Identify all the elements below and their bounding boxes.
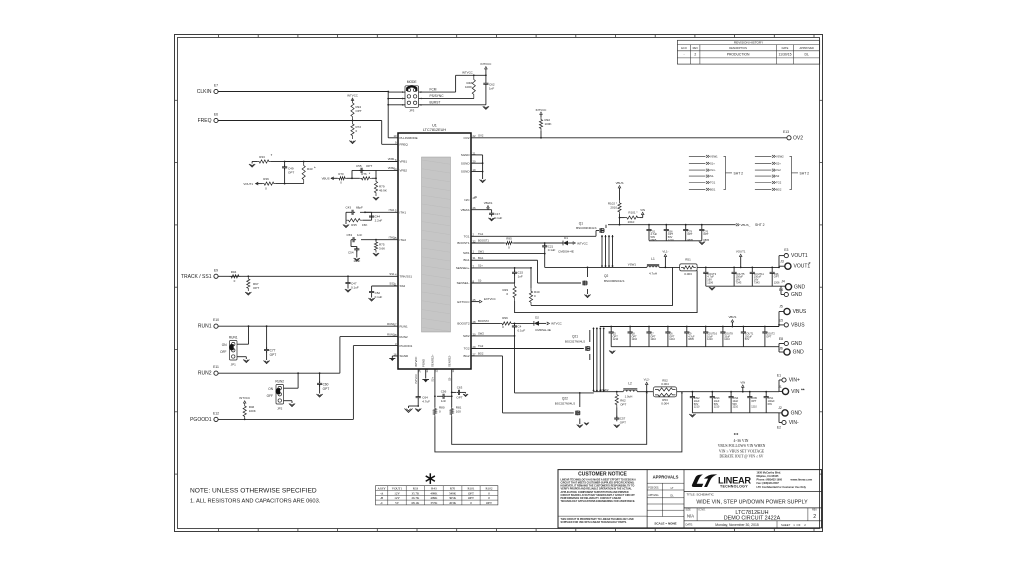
svg-text:D1: D1 (564, 236, 568, 240)
svg-text:2010: 2010 (628, 220, 635, 224)
svg-text:12V: 12V (394, 491, 400, 495)
svg-text:0.1uF: 0.1uF (518, 328, 526, 332)
svg-text:R33: R33 (413, 487, 419, 491)
svg-text:S1-: S1- (478, 279, 482, 283)
svg-text:OPT: OPT (703, 232, 709, 236)
svg-text:CLKIN: CLKIN (197, 89, 212, 95)
svg-text:R76: R76 (361, 172, 367, 176)
svg-text:INTVCC: INTVCC (414, 374, 418, 384)
svg-text:0805: 0805 (703, 238, 709, 242)
svg-text:C77: C77 (270, 349, 276, 353)
svg-text:OV2: OV2 (793, 135, 803, 141)
svg-text:BG2: BG2 (776, 188, 782, 192)
svg-text:J4: J4 (781, 280, 785, 284)
svg-text:12V: 12V (394, 496, 400, 500)
svg-text:DL: DL (670, 493, 674, 497)
svg-text:SHEET: SHEET (781, 523, 791, 527)
svg-text:GND: GND (791, 410, 803, 416)
svg-text:N/A: N/A (687, 514, 694, 519)
svg-text:0.1uF: 0.1uF (495, 216, 503, 220)
svg-text:31: 31 (473, 256, 476, 260)
svg-text:INTVCC: INTVCC (347, 94, 358, 98)
svg-text:EXTVCC: EXTVCC (484, 297, 496, 301)
svg-text:S2+: S2+ (431, 377, 435, 382)
svg-text:1210: 1210 (668, 238, 674, 242)
svg-text:2: 2 (694, 53, 696, 57)
svg-text:499K: 499K (430, 496, 438, 500)
svg-text:DATE: DATE (782, 46, 789, 50)
svg-text:OPT: OPT (253, 286, 259, 290)
svg-text:TRACK / SS1: TRACK / SS1 (181, 274, 212, 280)
svg-text:BOOST1: BOOST1 (457, 241, 470, 245)
svg-text:1210: 1210 (669, 338, 675, 341)
svg-text:5V: 5V (395, 501, 400, 505)
svg-text:VL2: VL2 (776, 168, 781, 172)
svg-text:OPT: OPT (366, 164, 372, 168)
svg-text:-B: -B (380, 496, 383, 500)
svg-text:FCM: FCM (430, 88, 437, 92)
svg-text:0.1uF: 0.1uF (548, 248, 556, 252)
svg-text:1nF: 1nF (357, 233, 362, 237)
svg-text:VIN ≥ VBUS SET VOLTAGE: VIN ≥ VBUS SET VOLTAGE (719, 449, 765, 453)
svg-text:S1+: S1+ (478, 264, 483, 268)
svg-text:OPT: OPT (620, 421, 626, 425)
svg-text:TG1: TG1 (464, 235, 470, 239)
svg-text:INTVCC: INTVCC (551, 322, 562, 326)
svg-text:100K: 100K (249, 409, 256, 413)
svg-text:REV.: REV. (812, 510, 818, 512)
svg-text:E12: E12 (213, 411, 219, 415)
svg-text:1210: 1210 (733, 406, 739, 409)
svg-text:-C: -C (380, 501, 383, 505)
svg-text:100: 100 (456, 409, 461, 413)
svg-text:OPT: OPT (323, 387, 330, 391)
svg-text:E8: E8 (779, 337, 783, 341)
svg-text:S1-: S1- (710, 174, 714, 178)
svg-text:49.9K: 49.9K (379, 189, 387, 193)
svg-text:357K: 357K (430, 501, 438, 505)
svg-text:2: 2 (813, 514, 816, 520)
svg-text:RUN2: RUN2 (400, 335, 408, 339)
svg-text:1210: 1210 (694, 406, 700, 409)
svg-text:OPT: OPT (486, 501, 492, 505)
svg-text:U1: U1 (432, 124, 437, 128)
svg-text:BOOST1: BOOST1 (478, 239, 489, 243)
svg-text:JP1: JP1 (231, 363, 237, 367)
svg-text:GND: GND (791, 292, 803, 298)
svg-text:OPT: OPT (751, 400, 757, 403)
svg-text:2010: 2010 (610, 206, 617, 210)
svg-text:1nF: 1nF (441, 399, 446, 403)
svg-text:J3: J3 (780, 260, 784, 264)
svg-text:BSC027N04LS: BSC027N04LS (565, 340, 585, 344)
svg-text:R43: R43 (431, 487, 437, 491)
svg-text:APPROVED: APPROVED (799, 46, 814, 50)
svg-text:DESCRIPTION: DESCRIPTION (729, 46, 747, 50)
svg-text:EXTVCC: EXTVCC (457, 300, 470, 304)
svg-text:SS2: SS2 (400, 284, 406, 288)
svg-text:PRODUCTION: PRODUCTION (727, 53, 750, 57)
svg-text:SS2: SS2 (389, 282, 395, 286)
svg-text:MODE: MODE (407, 80, 418, 84)
svg-text:SHT 2: SHT 2 (734, 171, 744, 175)
svg-text:365K: 365K (449, 496, 457, 500)
svg-text:LTC7812EUH: LTC7812EUH (423, 128, 447, 132)
svg-text:VBUS: VBUS (793, 309, 807, 315)
svg-text:R70: R70 (338, 172, 344, 176)
svg-text:GND: GND (793, 350, 805, 356)
svg-text:R95: R95 (506, 237, 512, 241)
svg-text:Q21: Q21 (572, 335, 578, 339)
svg-text:E10: E10 (213, 318, 219, 322)
svg-text:www.linear.com: www.linear.com (790, 477, 813, 481)
svg-text:26.7K: 26.7K (411, 496, 420, 500)
svg-text:SENSE1+: SENSE1+ (456, 266, 470, 270)
svg-text:J1: J1 (778, 385, 782, 389)
svg-text:Q2: Q2 (604, 274, 608, 278)
svg-text:TECHNOLOGY: TECHNOLOGY (720, 485, 748, 489)
svg-text:BSC093N04LS: BSC093N04LS (576, 226, 596, 230)
svg-text:OPT: OPT (270, 353, 277, 357)
svg-text:BSC090N04LS: BSC090N04LS (604, 279, 624, 283)
svg-text:VSW1: VSW1 (710, 155, 718, 159)
svg-text:VSW2: VSW2 (776, 155, 784, 159)
svg-text:E5: E5 (779, 318, 783, 322)
svg-text:1210: 1210 (707, 338, 713, 341)
svg-text:BOOST2: BOOST2 (478, 319, 489, 323)
svg-text:100K: 100K (545, 122, 552, 126)
svg-text:CUSTOMER NOTICE: CUSTOMER NOTICE (578, 471, 627, 477)
svg-text:ASSY: ASSY (378, 487, 387, 491)
svg-text:OFF: OFF (220, 350, 226, 354)
svg-text:DATE:: DATE: (686, 523, 694, 527)
svg-text:OV2: OV2 (463, 136, 469, 140)
svg-text:SW2: SW2 (478, 332, 484, 336)
svg-text:INTVCC: INTVCC (481, 62, 492, 66)
svg-text:VFB1: VFB1 (388, 157, 395, 161)
svg-text:VL1-: VL1- (662, 250, 668, 254)
svg-text:1206: 1206 (707, 281, 713, 285)
svg-text:VIN: VIN (740, 380, 745, 384)
svg-text:OV2: OV2 (478, 134, 484, 138)
svg-text:VOUT1: VOUT1 (736, 250, 746, 254)
svg-text:RUN2: RUN2 (387, 332, 395, 336)
svg-text:DL: DL (805, 53, 809, 57)
svg-text:C63: C63 (457, 386, 463, 390)
svg-text:SIZE: SIZE (686, 510, 692, 512)
svg-text:BG2: BG2 (463, 354, 469, 358)
svg-text:E11: E11 (213, 365, 219, 369)
svg-text:RUN1: RUN1 (198, 324, 212, 330)
svg-text:35.7K: 35.7K (411, 491, 420, 495)
svg-text:SGND: SGND (461, 153, 471, 157)
svg-text:VBIAS: VBIAS (484, 201, 493, 205)
svg-text:15K: 15K (362, 223, 367, 227)
svg-text:SUPPLIED FOR USE WITH LINEAR T: SUPPLIED FOR USE WITH LINEAR TECHNOLOGY … (561, 521, 628, 524)
svg-text:TRK/SS1: TRK/SS1 (400, 275, 413, 279)
svg-text:PGND: PGND (422, 359, 426, 367)
svg-text:SW1: SW1 (463, 251, 470, 255)
svg-text:DERATE IOUT @ VIN ≤ 6V: DERATE IOUT @ VIN ≤ 6V (720, 455, 764, 459)
svg-text:J5: J5 (779, 305, 783, 309)
svg-text:PGOOD1: PGOOD1 (190, 417, 212, 423)
svg-text:DEMO CIRCUIT 2422A: DEMO CIRCUIT 2422A (724, 516, 781, 522)
svg-text:E1: E1 (777, 373, 781, 377)
svg-text:LTC Confidential-For Customer: LTC Confidential-For Customer Use Only (757, 485, 807, 489)
svg-text:RUN1: RUN1 (400, 324, 408, 328)
svg-text:VBIAS: VBIAS (461, 208, 470, 212)
svg-text:SW1: SW1 (478, 249, 484, 253)
svg-text:RUN2: RUN2 (275, 380, 284, 384)
svg-text:VOUT1: VOUT1 (243, 182, 253, 186)
svg-text:ON: ON (268, 387, 273, 391)
svg-text:BG1: BG1 (710, 188, 716, 192)
svg-text:SENSE2+: SENSE2+ (431, 354, 435, 367)
svg-text:OPT: OPT (456, 396, 462, 400)
svg-text:C43: C43 (345, 206, 351, 210)
svg-text:OPT: OPT (620, 402, 626, 406)
svg-text:1210: 1210 (724, 338, 730, 341)
svg-text:E2: E2 (777, 425, 781, 429)
svg-text:0805: 0805 (688, 338, 694, 341)
svg-text:S1+: S1+ (710, 162, 715, 166)
svg-text:INTVCC: INTVCC (577, 241, 588, 245)
svg-text:IC NO.: IC NO. (699, 510, 706, 512)
svg-text:S2-: S2- (448, 377, 452, 381)
svg-text:CMDSH-4E: CMDSH-4E (558, 250, 574, 254)
svg-text:OPT: OPT (288, 170, 294, 174)
svg-text:D2: D2 (535, 315, 539, 319)
svg-text:FREQ: FREQ (400, 143, 409, 147)
svg-text:0.004: 0.004 (661, 402, 669, 406)
svg-text:C54: C54 (348, 251, 354, 255)
svg-text:ITH2: ITH2 (389, 235, 395, 239)
svg-text:ECO: ECO (681, 46, 687, 50)
svg-text:INTVCC: INTVCC (239, 396, 250, 400)
svg-text:VBUS: VBUS (322, 177, 330, 181)
svg-text:PCB DES.: PCB DES. (648, 488, 659, 490)
svg-text:PGOOD1: PGOOD1 (400, 344, 413, 348)
svg-text:50V: 50V (745, 338, 750, 341)
svg-text:C55: C55 (356, 164, 362, 168)
svg-text:Fax: (408)434-0507: Fax: (408)434-0507 (757, 482, 780, 485)
svg-text:REVISION HISTORY: REVISION HISTORY (734, 41, 763, 45)
svg-text:REV: REV (693, 46, 699, 50)
svg-text:JP3: JP3 (409, 109, 415, 113)
svg-text:68pF: 68pF (356, 206, 363, 210)
svg-text:1210: 1210 (751, 406, 757, 409)
svg-text:0.1uF: 0.1uF (375, 295, 383, 299)
svg-text:J9: J9 (474, 195, 477, 199)
svg-text:Q22: Q22 (562, 396, 568, 400)
svg-text:VOUT1: VOUT1 (791, 253, 808, 259)
svg-text:GND: GND (794, 284, 806, 290)
svg-text:SENSE2-: SENSE2- (448, 355, 452, 367)
svg-text:SGND: SGND (400, 354, 410, 358)
svg-text:E6: E6 (214, 113, 218, 117)
svg-text:1nF: 1nF (489, 87, 494, 91)
svg-text:7343: 7343 (736, 281, 742, 285)
svg-text:SENSE1-: SENSE1- (457, 281, 470, 285)
svg-text:1210: 1210 (714, 406, 720, 409)
svg-text:499K: 499K (430, 491, 438, 495)
svg-text:BG1: BG1 (463, 258, 469, 262)
svg-text:C56: C56 (441, 389, 447, 393)
svg-text:R70: R70 (450, 487, 456, 491)
svg-text:TG2: TG2 (478, 344, 484, 348)
svg-text:TG1: TG1 (478, 232, 484, 236)
svg-text:SS1: SS1 (389, 272, 395, 276)
svg-text:11/30/15: 11/30/15 (779, 53, 792, 57)
svg-text:RUN1: RUN1 (387, 322, 395, 326)
svg-text:PLLIN/MODE: PLLIN/MODE (400, 136, 418, 140)
svg-text:ITH1: ITH1 (389, 208, 395, 212)
svg-text:NOTE: UNLESS OTHERWISE SPECIFI: NOTE: UNLESS OTHERWISE SPECIFIED (190, 488, 317, 495)
svg-text:TG1: TG1 (710, 181, 716, 185)
svg-text:OPT: OPT (766, 335, 772, 338)
svg-text:OPT: OPT (468, 491, 474, 495)
svg-text:1210: 1210 (650, 338, 656, 341)
svg-text:TG2: TG2 (776, 181, 782, 185)
svg-text:SHT 2: SHT 2 (755, 223, 765, 227)
svg-text:VSW1: VSW1 (628, 263, 637, 267)
svg-text:RUN2: RUN2 (198, 371, 212, 377)
svg-text:VBUS FOLLOWS VIN WHEN: VBUS FOLLOWS VIN WHEN (718, 444, 766, 448)
svg-text:S2+: S2+ (776, 162, 781, 166)
svg-text:L2: L2 (628, 382, 632, 386)
svg-text:VBUS: VBUS (728, 315, 736, 319)
svg-text:RUN1: RUN1 (229, 336, 238, 340)
svg-text:VIN: VIN (640, 208, 645, 212)
svg-text:OPT: OPT (687, 232, 693, 236)
svg-text:549K: 549K (449, 491, 457, 495)
svg-text:VL1-: VL1- (710, 168, 716, 172)
svg-text:APP ENG.: APP ENG. (648, 494, 659, 497)
svg-text:OPT: OPT (468, 496, 474, 500)
svg-text:E7: E7 (214, 84, 218, 88)
svg-text:Q1: Q1 (579, 221, 583, 225)
svg-text:63V: 63V (768, 403, 773, 406)
svg-text:1. ALL RESISTORS AND CAPACITO: 1. ALL RESISTORS AND CAPACITORS ARE 0603… (190, 499, 321, 505)
svg-text:R101 *: R101 * (628, 211, 638, 215)
svg-text:SHT 2: SHT 2 (800, 171, 810, 175)
svg-text:R35: R35 (351, 223, 357, 227)
svg-text:R51: R51 (685, 257, 691, 261)
svg-text:3.6K: 3.6K (379, 247, 385, 251)
svg-text:100K: 100K (465, 85, 472, 89)
svg-text:LT: LT (671, 486, 674, 490)
svg-text:INTVCC: INTVCC (462, 71, 473, 75)
svg-text:SGND: SGND (461, 161, 471, 165)
svg-text:VBUS: VBUS (791, 322, 805, 328)
svg-text:VL2-: VL2- (644, 378, 650, 382)
svg-text:VFB1: VFB1 (400, 160, 408, 164)
svg-text:TG2: TG2 (464, 347, 470, 351)
svg-text:GND: GND (791, 341, 803, 347)
svg-text:**: ** (801, 387, 805, 392)
svg-text:C60: C60 (323, 382, 329, 386)
svg-text:E4: E4 (779, 288, 783, 292)
svg-text:OPT: OPT (356, 109, 362, 113)
svg-text:L1: L1 (651, 257, 655, 261)
svg-text:E9: E9 (214, 268, 218, 272)
svg-text:1210: 1210 (632, 338, 638, 341)
svg-text:0.003: 0.003 (684, 272, 692, 276)
svg-text:FREQ: FREQ (198, 118, 212, 124)
svg-text:VBUS_: VBUS_ (741, 223, 751, 227)
svg-text:APPROVALS: APPROVALS (653, 475, 679, 480)
svg-text:4.7uH: 4.7uH (649, 272, 657, 276)
svg-text:SGND: SGND (461, 170, 471, 174)
svg-text:ITH1: ITH1 (400, 211, 407, 215)
svg-text:VIN: VIN (791, 389, 800, 395)
svg-text:4~36 VIN: 4~36 VIN (734, 439, 749, 443)
svg-text:0.004: 0.004 (661, 382, 669, 386)
svg-text:BG2: BG2 (478, 352, 484, 356)
svg-text:68.1K: 68.1K (411, 501, 420, 505)
svg-text:TITLE: SCHEMATIC: TITLE: SCHEMATIC (687, 492, 715, 496)
svg-text:N/C: N/C (464, 198, 470, 202)
svg-text:VBUS: VBUS (616, 181, 624, 185)
svg-text:VIN+: VIN+ (789, 378, 800, 384)
svg-text:**: ** (734, 434, 739, 439)
svg-text:BOOST2: BOOST2 (457, 322, 470, 326)
svg-text:R43: R43 (307, 167, 313, 171)
svg-text:OPT: OPT (774, 275, 780, 279)
svg-text:Monday, November 30, 2015: Monday, November 30, 2015 (715, 523, 759, 527)
svg-text:SW2: SW2 (463, 334, 470, 338)
svg-text:ON: ON (222, 343, 227, 347)
svg-text:BSC027N04LS: BSC027N04LS (555, 401, 575, 405)
svg-text:PS/SYNC: PS/SYNC (430, 94, 445, 98)
svg-text:R04: R04 (231, 270, 237, 274)
svg-text:JP2: JP2 (277, 407, 283, 411)
svg-text:2.2nF: 2.2nF (375, 218, 383, 222)
svg-text:INTVCC: INTVCC (536, 108, 547, 112)
svg-text:R101: R101 (468, 487, 475, 491)
svg-text:R36: R36 (263, 177, 269, 181)
svg-text:VIN-: VIN- (789, 420, 799, 426)
svg-text:WIDE VIN, STEP UP/DOWN POWER S: WIDE VIN, STEP UP/DOWN POWER SUPPLY (696, 500, 808, 506)
svg-text:0.1uF: 0.1uF (351, 286, 359, 290)
svg-text:VOUT1: VOUT1 (392, 487, 403, 491)
svg-text:E3: E3 (784, 248, 788, 252)
svg-text:VFB2: VFB2 (400, 169, 408, 173)
svg-text:1nF: 1nF (518, 274, 523, 278)
svg-text:OF: OF (797, 523, 801, 527)
svg-text:0805: 0805 (651, 238, 657, 242)
svg-text:1210: 1210 (613, 338, 619, 341)
svg-text:0805: 0805 (687, 238, 693, 242)
svg-text:SCALE = NONE: SCALE = NONE (654, 522, 676, 526)
svg-text:BG1: BG1 (478, 256, 484, 260)
svg-text:7343: 7343 (754, 281, 760, 285)
svg-text:R102: R102 (486, 487, 493, 491)
svg-text:C53: C53 (346, 233, 352, 237)
svg-text:OFF: OFF (267, 394, 273, 398)
svg-text:J2: J2 (778, 406, 782, 410)
svg-text:J6: J6 (779, 347, 783, 351)
svg-text:BURST: BURST (430, 100, 441, 104)
svg-text:S2: S2 (776, 174, 780, 178)
svg-text:453K: 453K (449, 501, 457, 505)
svg-text:4.7uF: 4.7uF (422, 400, 430, 404)
svg-text:-: - (683, 53, 684, 57)
svg-text:TECHNOLOGY APPLICATIONS ENGINE: TECHNOLOGY APPLICATIONS ENGINEERING FOR … (561, 500, 636, 503)
svg-text:1206: 1206 (774, 281, 780, 285)
svg-text:1.0uH: 1.0uH (625, 394, 633, 398)
svg-text:R33: R33 (259, 155, 265, 159)
